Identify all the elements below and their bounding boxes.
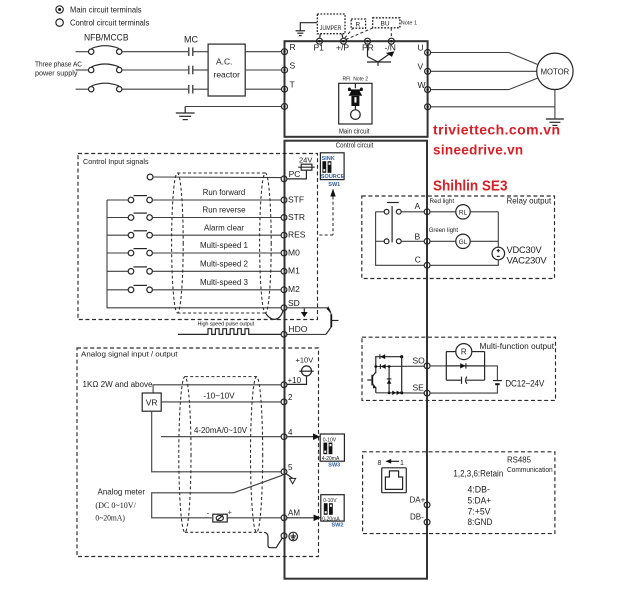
battery DC12~24V xyxy=(493,378,544,388)
wire U to motor xyxy=(431,53,537,65)
ground symbol (supply side) xyxy=(176,107,195,120)
arrow current direction at SD xyxy=(301,309,308,318)
svg-text:Main circuit: Main circuit xyxy=(339,127,370,136)
terminal A xyxy=(415,201,431,215)
svg-text:BU: BU xyxy=(381,21,390,28)
terminal S xyxy=(282,61,296,74)
wire STF row xyxy=(152,199,281,201)
svg-text:T: T xyxy=(290,80,295,90)
terminal +10 xyxy=(281,376,302,388)
svg-text:-/N: -/N xyxy=(385,43,396,53)
terminal DA+ xyxy=(410,495,431,507)
svg-text:24V: 24V xyxy=(299,155,312,164)
svg-text:Main circuit terminals: Main circuit terminals xyxy=(70,5,142,14)
svg-text:PC: PC xyxy=(289,169,301,179)
svg-text:0-10V: 0-10V xyxy=(323,437,337,443)
svg-text:Run forward: Run forward xyxy=(203,187,246,197)
terminal P1 xyxy=(314,38,325,52)
wire HDO with pulse waveform xyxy=(178,329,281,335)
svg-text:7:+5V: 7:+5V xyxy=(468,506,491,516)
terminal +/P xyxy=(336,38,349,52)
svg-text:1,2,3,6:Retain: 1,2,3,6:Retain xyxy=(453,469,503,479)
svg-text:Multi-speed 3: Multi-speed 3 xyxy=(200,277,248,287)
wire breaker to MC contactor phase S xyxy=(122,69,188,71)
svg-text:Multi-speed 1: Multi-speed 1 xyxy=(200,240,248,250)
terminal M0 xyxy=(281,247,300,257)
dashed link +/P to BU box xyxy=(346,28,374,40)
terminal SO xyxy=(413,356,431,369)
wire +10 row to VR xyxy=(153,385,281,393)
analog signal input/output dashed box xyxy=(77,348,319,557)
svg-text:STR: STR xyxy=(288,212,305,222)
wire breaker to MC contactor phase T xyxy=(122,88,188,90)
switch Multi-speed 1 xyxy=(107,249,152,256)
wire AC reactor to terminal R xyxy=(245,51,281,53)
switch Run forward xyxy=(107,196,152,203)
ground symbol (motor) xyxy=(546,119,564,125)
optocoupler output stage xyxy=(367,354,424,395)
svg-text:1: 1 xyxy=(400,460,404,467)
wire RES row xyxy=(152,234,281,236)
svg-text:JUMPER: JUMPER xyxy=(320,26,342,32)
svg-text:GL: GL xyxy=(459,239,468,246)
svg-text:power supply: power supply xyxy=(35,71,78,78)
svg-text:VR: VR xyxy=(146,398,158,408)
svg-text:MC: MC xyxy=(184,35,198,45)
wire VR to terminal 2 xyxy=(161,401,281,403)
breaker NFB/MCCB phase T xyxy=(76,83,122,92)
arrow ground symbol below terminal 5 xyxy=(287,474,296,484)
svg-text:S: S xyxy=(290,61,296,71)
svg-text:V: V xyxy=(418,62,424,72)
contactor MC phase S xyxy=(189,66,193,75)
arrow terminal 4 to SW3 xyxy=(287,433,320,440)
svg-text:Analog signal input / output: Analog signal input / output xyxy=(81,350,178,359)
wire shield drain to SD xyxy=(265,311,283,320)
svg-text:High speed pulse output: High speed pulse output xyxy=(198,322,255,328)
jumper JUMPER (P1 to +/P) xyxy=(317,14,345,38)
internal brake switch symbol (PR to -/N) xyxy=(367,45,394,66)
switch Run reverse xyxy=(107,213,152,220)
svg-text:Alarm clear: Alarm clear xyxy=(204,222,244,232)
svg-text:AM: AM xyxy=(288,509,300,518)
contactor MC phase T xyxy=(189,85,193,94)
svg-text:8: 8 xyxy=(378,460,382,467)
wire M0 row xyxy=(152,252,281,254)
relay output dashed box xyxy=(362,196,555,279)
terminal M1 xyxy=(281,266,300,276)
A.C. reactor xyxy=(208,44,245,96)
switch SW2 0-10V/0-20mA xyxy=(321,495,344,529)
terminal PC xyxy=(281,169,300,182)
svg-text:Multi-function output: Multi-function output xyxy=(480,342,555,351)
svg-text:Note 1: Note 1 xyxy=(401,20,417,26)
svg-text:+10V: +10V xyxy=(296,355,314,364)
potentiometer VR xyxy=(142,393,161,411)
RJ45 connector xyxy=(382,468,407,493)
svg-text:SW2: SW2 xyxy=(332,523,344,529)
svg-text:Control circuit: Control circuit xyxy=(336,141,374,150)
svg-text:SOURCE: SOURCE xyxy=(321,174,345,180)
svg-text:W: W xyxy=(418,80,426,90)
RFI filter box with screw and jumper xyxy=(339,83,372,124)
wire MC to AC reactor phase S xyxy=(193,69,208,71)
svg-text:0-10V: 0-10V xyxy=(323,498,337,504)
svg-text:P1: P1 xyxy=(314,43,325,53)
svg-text:RFI Note 2: RFI Note 2 xyxy=(343,76,369,82)
shielded cable (analog) xyxy=(179,377,263,533)
terminal ground (input side) xyxy=(282,104,288,110)
wire M1 row xyxy=(152,270,281,272)
svg-text:0~20mA): 0~20mA) xyxy=(95,513,125,523)
svg-text:+/P: +/P xyxy=(336,43,349,53)
svg-text:R: R xyxy=(461,348,467,357)
wire SD to output transistor xyxy=(287,308,331,314)
wire ground to inverter ground terminal xyxy=(185,106,281,108)
terminal R xyxy=(282,42,296,55)
svg-text:VAC230V: VAC230V xyxy=(507,255,548,266)
contactor MC phase R xyxy=(189,47,193,56)
terminal M2 xyxy=(281,284,300,294)
svg-text:4-20mA: 4-20mA xyxy=(322,456,340,462)
+10V supply symbol xyxy=(287,355,314,384)
svg-text:A: A xyxy=(415,201,421,211)
svg-text:Communication: Communication xyxy=(507,465,553,474)
wire PC row xyxy=(147,174,281,180)
wire shield drain to ground terminal xyxy=(264,532,282,547)
breaker NFB/MCCB phase R xyxy=(76,46,122,55)
svg-text:Three phase AC: Three phase AC xyxy=(35,62,82,69)
svg-text:HDO: HDO xyxy=(289,324,308,334)
svg-text:STF: STF xyxy=(288,194,304,204)
terminal U xyxy=(418,43,431,56)
wire breaker to MC contactor phase R xyxy=(122,51,188,53)
wire lamps to power source xyxy=(497,212,499,247)
wire MC to AC reactor phase R xyxy=(193,51,208,53)
RS485 communication dashed box xyxy=(363,452,555,534)
svg-text:SW1: SW1 xyxy=(328,182,340,188)
wire AC reactor to terminal T xyxy=(245,88,281,90)
svg-text:DC12~24V: DC12~24V xyxy=(505,378,544,388)
svg-text:RES: RES xyxy=(288,230,306,240)
terminal SD xyxy=(281,298,300,311)
wire transistor to HDO xyxy=(287,333,326,335)
svg-text:U: U xyxy=(418,43,424,53)
terminal W xyxy=(418,80,431,93)
terminal HDO xyxy=(281,324,308,337)
svg-text:(DC 0~10V/: (DC 0~10V/ xyxy=(95,500,136,510)
svg-text:4-20mA/0~10V: 4-20mA/0~10V xyxy=(194,426,248,435)
switch Multi-speed 3 xyxy=(107,285,152,292)
breaker NFB/MCCB phase S xyxy=(76,64,122,73)
relay contact B xyxy=(376,239,425,244)
terminal C xyxy=(415,254,430,268)
label Three phase AC power supply xyxy=(35,62,82,78)
earth symbol xyxy=(289,532,298,541)
lamp RL xyxy=(430,205,498,219)
svg-text:0-20mA: 0-20mA xyxy=(322,516,340,522)
wire coil to battery xyxy=(485,366,498,380)
svg-text:2: 2 xyxy=(288,393,293,402)
svg-text:triviettech.com.vn: triviettech.com.vn xyxy=(433,121,561,137)
svg-text:M2: M2 xyxy=(288,284,300,294)
main circuit box xyxy=(285,41,428,137)
svg-text:Control circuit terminals: Control circuit terminals xyxy=(70,18,149,27)
svg-text:SW3: SW3 xyxy=(328,463,340,469)
svg-text:8:GND: 8:GND xyxy=(468,517,493,527)
svg-text:DA+: DA+ xyxy=(410,495,426,504)
switch Multi-speed 2 xyxy=(107,267,152,274)
terminal V xyxy=(418,62,431,75)
terminal PR xyxy=(362,38,374,52)
terminal STR xyxy=(281,212,305,222)
dashed link +/P to R box xyxy=(345,29,353,38)
svg-text:Green light: Green light xyxy=(429,227,459,234)
svg-text:C: C xyxy=(415,254,421,264)
svg-text:DB-: DB- xyxy=(410,513,424,522)
terminal DB- xyxy=(410,513,430,525)
control input signals dashed box xyxy=(78,154,318,320)
ground symbol (top left of main circuit) xyxy=(296,31,305,36)
lamp GL xyxy=(430,234,498,248)
switch Alarm clear xyxy=(107,231,152,238)
terminal STF xyxy=(281,194,304,204)
control circuit box xyxy=(285,141,428,579)
braking unit BU (dotted box) xyxy=(373,18,400,28)
terminal T xyxy=(282,80,295,93)
wire current/voltage input row 4 xyxy=(161,436,281,438)
wire M2 row xyxy=(152,289,281,291)
svg-text:1KΩ 2W and above: 1KΩ 2W and above xyxy=(83,380,154,389)
terminal SE xyxy=(413,383,431,396)
24V supply fuse symbol xyxy=(287,155,315,179)
svg-text:+: + xyxy=(228,509,232,516)
wire ground to jumper box xyxy=(300,23,317,31)
terminal 2 xyxy=(281,393,293,405)
svg-text:Shihlin SE3: Shihlin SE3 xyxy=(433,177,508,194)
terminal ground (output side) xyxy=(425,104,431,110)
svg-text:M0: M0 xyxy=(288,247,300,257)
legend control circuit terminal symbol xyxy=(56,19,63,26)
svg-text:Red light: Red light xyxy=(430,198,455,205)
svg-text:SE: SE xyxy=(413,383,425,393)
switch SW3 0-10V/4-20mA xyxy=(320,434,344,469)
svg-text:Control Input signals: Control Input signals xyxy=(83,157,149,166)
svg-text:B: B xyxy=(415,231,421,241)
wire ground terminal to motor ground xyxy=(431,106,555,108)
svg-text:M1: M1 xyxy=(288,266,300,276)
svg-text:reactor: reactor xyxy=(214,70,241,80)
svg-text:SD: SD xyxy=(288,298,300,308)
svg-text:sineedrive.vn: sineedrive.vn xyxy=(433,142,524,158)
wire relay common to C xyxy=(376,212,425,265)
wire meter to AM xyxy=(227,517,281,519)
multi-function output dashed box xyxy=(362,337,556,400)
label 8 to 1 pin order xyxy=(378,459,405,467)
svg-text:SINK: SINK xyxy=(322,156,335,162)
transistor high speed pulse output xyxy=(326,306,339,334)
svg-text:+10: +10 xyxy=(288,376,302,385)
svg-text:4: 4 xyxy=(288,428,293,437)
wire battery to SE row xyxy=(430,385,497,393)
motor xyxy=(537,53,573,89)
svg-text:RS485: RS485 xyxy=(507,454,531,464)
wire meter return to terminal 5 xyxy=(152,475,283,518)
relay coil R with diode and capacitor xyxy=(430,344,485,384)
terminal shield ground xyxy=(281,533,287,539)
dashed link BU to -/N xyxy=(390,28,392,38)
svg-text:A.C.: A.C. xyxy=(216,57,233,67)
svg-text:Multi-speed 2: Multi-speed 2 xyxy=(200,259,248,269)
shielded cable (control inputs) xyxy=(172,173,272,313)
svg-text:MOTOR: MOTOR xyxy=(541,67,570,76)
svg-text:RL: RL xyxy=(459,210,468,217)
relay contact A xyxy=(376,203,425,243)
wire power source to C row xyxy=(430,260,498,266)
legend main circuit terminal symbol xyxy=(56,6,63,13)
switch SW1 SINK/SOURCE xyxy=(320,153,344,188)
svg-text:R: R xyxy=(356,22,361,29)
svg-text:Relay output: Relay output xyxy=(507,197,552,206)
svg-text:R: R xyxy=(290,42,296,52)
arrow AM to SW2 xyxy=(287,515,321,522)
svg-text:SO: SO xyxy=(413,356,426,366)
terminal B xyxy=(415,231,431,244)
dashed link SW1 to input logic xyxy=(318,189,336,236)
wire V to motor xyxy=(431,70,537,72)
wire W to motor xyxy=(431,78,537,89)
analog meter symbol xyxy=(207,509,232,522)
terminal RES xyxy=(281,230,306,240)
wire AC reactor to terminal S xyxy=(245,69,281,71)
terminal 5 xyxy=(281,463,293,475)
resistor R (braking, dotted box) xyxy=(351,19,365,29)
svg-text:NFB/MCCB: NFB/MCCB xyxy=(84,33,129,43)
terminal -/N xyxy=(385,38,396,52)
wire MC to AC reactor phase T xyxy=(193,88,208,90)
svg-text:4:DB-: 4:DB- xyxy=(468,485,490,495)
svg-text:-10~10V: -10~10V xyxy=(203,392,235,401)
svg-text:5: 5 xyxy=(288,463,293,472)
svg-text:Run reverse: Run reverse xyxy=(203,205,246,215)
svg-text:5:DA+: 5:DA+ xyxy=(468,495,492,505)
wire motor to ground xyxy=(554,90,556,120)
wire common line to SD xyxy=(107,200,281,308)
wire VR bottom to terminal 5 xyxy=(152,411,281,472)
power source VDC30V/VAC230V xyxy=(492,245,547,266)
terminal 4 xyxy=(281,428,293,440)
terminal AM xyxy=(281,509,300,521)
wire STR row xyxy=(152,217,281,219)
svg-text:Analog meter: Analog meter xyxy=(98,486,146,496)
